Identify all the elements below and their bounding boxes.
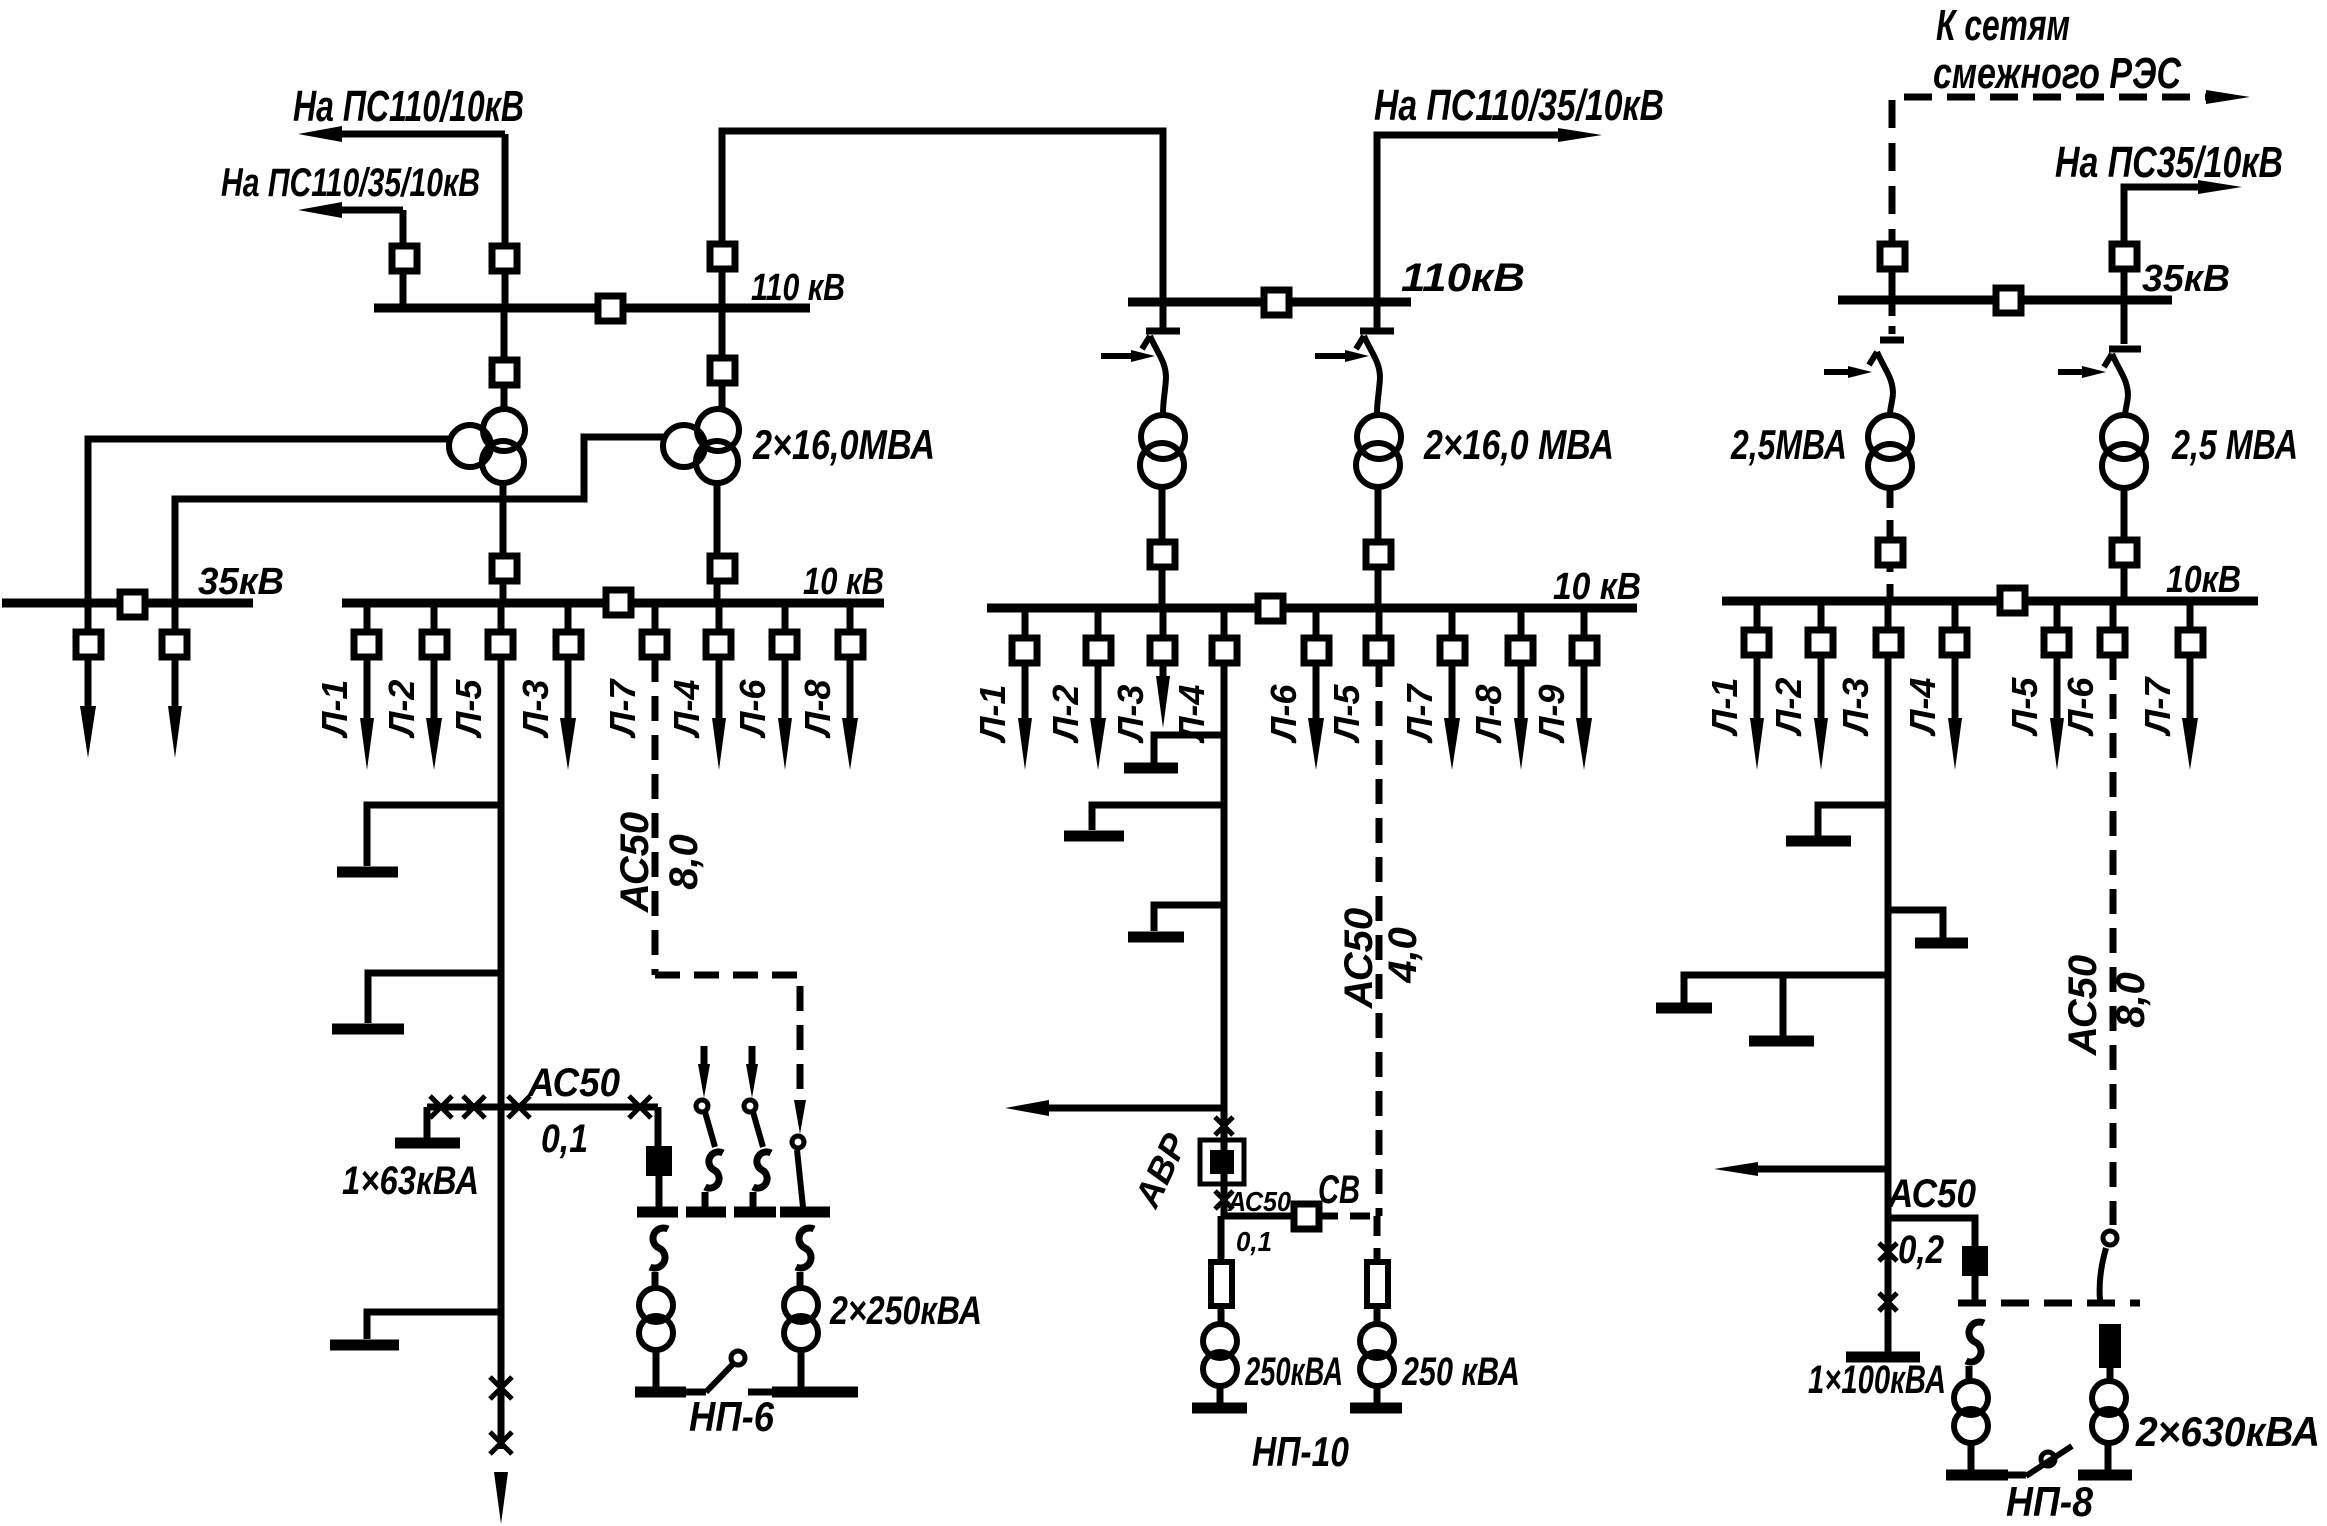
net: dashed line К сетям смежного РЭС: [1892, 97, 2228, 300]
feeder Л-4 disconnector: [1212, 638, 1237, 663]
transformer T4 two-winding 16 MVA: [1357, 415, 1401, 459]
net: outgoing 110kV line 'На ПС110/10кВ' with arrow: [330, 131, 505, 138]
feeder Л-6 dashed line АС50 8,0 sub3: [2110, 655, 2117, 1225]
feeder Л-5 dashed line АС50 4,0: [1376, 662, 1383, 1216]
svg-text:Л-3: Л-3: [1110, 685, 1151, 745]
fuse on TP-1 branch: [650, 1228, 668, 1268]
svg-text:СВ: СВ: [1318, 1168, 1360, 1212]
svg-text:0,2: 0,2: [1898, 1228, 1944, 1272]
feeder Л-6 disconnector: [1304, 638, 1329, 663]
dashed 10kV link bus at TP-5/TP-6: [1958, 1300, 2140, 1307]
circuit breaker (filled) on TP-5 branch: [1962, 1246, 1988, 1276]
disconnector T2 HV: [710, 358, 735, 383]
feeder Л-3 disconnector: [556, 632, 581, 657]
wire: [1218, 1306, 1225, 1324]
svg-text:4,0: 4,0: [1381, 927, 1425, 984]
svg-text:0,1: 0,1: [1236, 1226, 1272, 1257]
svg-text:110 кВ: 110 кВ: [751, 267, 845, 309]
svg-text:Л-5: Л-5: [448, 679, 489, 740]
crossing marks on Л-3: [1879, 1243, 1897, 1261]
feeder Л-6 wire: [1313, 608, 1320, 650]
svg-text:35кВ: 35кВ: [198, 561, 284, 603]
fuse on TP-4: [1367, 1262, 1388, 1306]
feeder Л-1 line with arrow: [1022, 662, 1029, 726]
svg-text:0,1: 0,1: [541, 1117, 588, 1161]
bus 110 кВ substation 2: [1128, 298, 1411, 307]
feeder Л-1 disconnector: [1012, 638, 1037, 663]
transformer T6 two-winding 2.5 MVA: [2102, 415, 2146, 459]
transformer TP-2 2x250kVA: [784, 1288, 818, 1322]
wire: [2105, 1444, 2112, 1470]
svg-text:Л-1: Л-1: [1704, 678, 1745, 738]
feeder Л-9 disconnector: [1572, 638, 1597, 663]
wire: T2 10kV lead to 10kV bus: [714, 482, 721, 603]
bus 35 кВ substation 1: [2, 599, 253, 608]
transformer T1 three-winding 16 MVA: [483, 409, 525, 451]
RP 10kV bus section 2: [686, 1207, 726, 1218]
wire: T1 35kV winding to 35kV bus: [88, 439, 452, 603]
disconnector T4 LV: [1366, 542, 1391, 567]
svg-text:Л-3: Л-3: [1835, 678, 1876, 738]
wire: [702, 1192, 709, 1208]
wire: transformer T2 HV lead: [719, 308, 726, 411]
feeder Л-5 main line: [498, 657, 505, 1449]
end bar of Л-3 1×100кВА: [1846, 1352, 1920, 1363]
spur line АС50 0,1 from Л-5: [427, 1104, 658, 1111]
feeder Л-6 wire: [782, 603, 789, 645]
svg-text:Л-1: Л-1: [314, 680, 355, 740]
wire: [1972, 1276, 1979, 1303]
fuse on TP-2 branch: [796, 1228, 814, 1268]
svg-text:10 кВ: 10 кВ: [1553, 566, 1641, 608]
feeder Л-4 wire: [716, 603, 723, 645]
svg-text:Л-3: Л-3: [515, 680, 556, 740]
svg-text:Л-6: Л-6: [1263, 684, 1304, 745]
wire: [1217, 1387, 1224, 1404]
fuse (filled) on TP-6 branch: [2099, 1324, 2121, 1368]
transformer T6 bay disconnector OD: [2121, 300, 2128, 344]
svg-text:АС50: АС50: [527, 1061, 620, 1105]
35kV feeder 1 disconnector: [76, 632, 101, 657]
wire to RP bus: [656, 1176, 663, 1208]
transformer T4 bay disconnector OD: [1374, 302, 1381, 328]
tie line СВ with sectionalizing switch: [1224, 1213, 1294, 1220]
disconnector on dashed line bay: [1880, 244, 1905, 269]
feeder Л-5 wire: [498, 603, 505, 645]
feeder Л-5 wire: [1376, 608, 1383, 638]
bus-section disconnector 35kV sub3: [1996, 288, 2021, 313]
feeder Л-7 disconnector: [642, 632, 667, 657]
svg-text:АС50: АС50: [2061, 955, 2105, 1056]
disconnector blade incoming 2: [696, 1100, 708, 1112]
transformer T2 three-winding 16 MVA: [697, 409, 739, 451]
0.4kV dead-end bar TP-5: [1946, 1470, 2008, 1481]
crossing mark below АВР: [1215, 1191, 1233, 1209]
feeder Л-8 line with arrow: [1518, 662, 1525, 726]
bus-section disconnector 10kV sub3: [2000, 588, 2025, 613]
feeder Л-4 line with arrow: [1952, 655, 1959, 726]
feeder Л-5 disconnector: [1366, 638, 1391, 663]
bus-section disconnector 35kV: [120, 592, 145, 617]
svg-text:110кВ: 110кВ: [1401, 256, 1525, 300]
feeder Л-1 wire: [1022, 608, 1029, 650]
crossing mark above АВР: [1215, 1117, 1233, 1135]
feeder Л-3 wire: [1160, 608, 1167, 650]
svg-text:Л-5: Л-5: [2004, 677, 2045, 738]
disconnector on line bay 2: [392, 246, 417, 271]
svg-text:АС50: АС50: [1227, 1186, 1291, 1217]
0.4kV dead-end bar TP-2: [772, 1387, 858, 1398]
disconnector blade on Л-6 end: [2103, 1231, 2117, 1245]
transformer TP-5: [1954, 1381, 1988, 1415]
feeder Л-4 line with arrow: [716, 657, 723, 726]
feeder Л-2 disconnector: [1808, 630, 1833, 655]
tap to 1×63кВА substation: [424, 1107, 431, 1138]
tap 1 from Л-5 to consumer substation: [367, 805, 501, 866]
svg-text:Л-7: Л-7: [602, 678, 643, 740]
svg-text:На ПС110/35/10кВ: На ПС110/35/10кВ: [221, 161, 480, 205]
0.4kV dead-end bar TP-1: [635, 1387, 686, 1398]
feeder Л-3 wire: [1885, 601, 1892, 643]
wire: T3 LV lead: [1159, 487, 1166, 608]
disconnector on line bay 1: [492, 246, 517, 271]
wire: [2107, 1368, 2114, 1381]
svg-text:2×16,0МВА: 2×16,0МВА: [752, 421, 935, 468]
transformer TP-3 250kVA: [1203, 1324, 1237, 1358]
wire: T4 LV lead: [1375, 487, 1382, 608]
transformer TP-1 250kVA: [639, 1288, 673, 1322]
svg-text:Л-5: Л-5: [1326, 684, 1367, 745]
bus-section disconnector 110kV sub2: [1264, 290, 1289, 315]
wire: [797, 1272, 804, 1288]
RP 10kV bus section 1: [637, 1207, 678, 1218]
feeder Л-3 main line sub3: [1885, 655, 1892, 1352]
feeder Л-1 wire: [1754, 601, 1761, 643]
svg-text:2×250кВА: 2×250кВА: [829, 1289, 982, 1333]
feeder Л-9 wire: [1581, 608, 1588, 650]
0.4kV dead-end bar TP-6: [2078, 1470, 2132, 1481]
tap 3 from Л-4: [1154, 905, 1224, 931]
feeder Л-3 wire: [565, 603, 572, 645]
feeder Л-5 disconnector: [2044, 630, 2069, 655]
wire from СВ node down: [1218, 1216, 1225, 1262]
dashed wire below CB: [1374, 1216, 1381, 1262]
svg-text:Л-2: Л-2: [1045, 685, 1086, 745]
feeder Л-2 disconnector: [1086, 638, 1111, 663]
35kV feeder 2 wire: [172, 603, 179, 712]
wire: T1 10kV lead to 10kV bus: [500, 482, 507, 603]
svg-text:Л-4: Л-4: [666, 680, 707, 740]
feeder Л-8 line with arrow: [847, 657, 854, 726]
feeder Л-4 main line: [1221, 662, 1228, 1216]
feeder Л-8 disconnector: [1508, 638, 1533, 663]
svg-text:35кВ: 35кВ: [2142, 258, 2230, 300]
bus 10 кВ substation 3: [1722, 597, 2258, 606]
svg-text:1×100кВА: 1×100кВА: [1808, 1358, 1946, 1402]
feeder Л-7 wire: [1449, 608, 1456, 650]
svg-text:2×630кВА: 2×630кВА: [2135, 1408, 2320, 1455]
dashed wire: T5 LV lead: [1887, 488, 1894, 601]
feeder Л-4 disconnector: [706, 632, 731, 657]
RP 10kV bus section 4: [780, 1207, 830, 1218]
wire: 110kV tie line to substation 2: [722, 131, 1163, 308]
transformer TP-6 2x630kVA: [2092, 1381, 2126, 1415]
disconnector T5 LV: [1878, 540, 1903, 565]
svg-text:НП-8: НП-8: [2006, 1478, 2094, 1525]
svg-text:НП-10: НП-10: [1252, 1428, 1349, 1475]
svg-text:2×16,0 МВА: 2×16,0 МВА: [1423, 421, 1614, 468]
svg-text:2,5 МВА: 2,5 МВА: [2171, 421, 2298, 468]
feeder Л-6 disconnector: [2100, 630, 2125, 655]
wire: [798, 1351, 805, 1387]
wire: [1374, 1306, 1381, 1324]
disconnector T1 LV: [492, 556, 517, 581]
feeder Л-7 disconnector: [1440, 638, 1465, 663]
bus-section disconnector 10kV sub1: [606, 590, 631, 615]
svg-text:2,5МВА: 2,5МВА: [1730, 421, 1847, 468]
svg-text:Л-8: Л-8: [797, 680, 838, 740]
svg-text:Л-2: Л-2: [1768, 678, 1809, 738]
outgoing tap with arrow from Л-4: [1048, 1105, 1224, 1112]
wire: T6 LV lead: [2121, 488, 2128, 601]
feeder Л-3 disconnector: [1150, 638, 1175, 663]
svg-text:8,0: 8,0: [662, 834, 706, 890]
feeder Л-3 line with arrow: [565, 657, 572, 726]
svg-text:На ПС110/10кВ: На ПС110/10кВ: [293, 82, 524, 131]
0.4kV dead-end bar TP-3: [1192, 1403, 1247, 1414]
outgoing tap with arrow from Л-3 sub3: [1758, 1166, 1888, 1173]
tap 1 from Л-3 sub3: [1818, 805, 1888, 836]
feeder Л-4 disconnector: [1942, 630, 1967, 655]
tap 3 from Л-5 to consumer substation: [367, 1312, 501, 1339]
feeder Л-8 wire: [847, 603, 854, 645]
35kV feeder 1 arrow: [80, 706, 96, 758]
transformer T5 two-winding 2.5 MVA (planned, dashed): [1868, 415, 1912, 459]
branch from Л-3 to TP-5: [1888, 1218, 1975, 1248]
feeder Л-2 line with arrow: [431, 657, 438, 726]
disconnector T6 LV: [2112, 540, 2137, 565]
fuse on TP-3: [1211, 1262, 1232, 1306]
wire: drop to RP-6 switchgear: [655, 1107, 662, 1146]
RP 10kV bus section 3: [734, 1207, 776, 1218]
svg-text:АС50: АС50: [1337, 908, 1381, 1009]
feeder Л-1 disconnector: [1744, 630, 1769, 655]
feeder Л-7 line with arrow: [2187, 655, 2194, 726]
wire: [653, 1351, 660, 1387]
bus-section disconnector 10kV sub2: [1258, 596, 1283, 621]
wire: [1966, 1366, 1973, 1381]
disconnector T2 LV: [710, 556, 735, 581]
transformer TP-4 250kVA: [1360, 1324, 1394, 1358]
feeder Л-6 wire: [2110, 601, 2117, 631]
svg-text:смежного РЭС: смежного РЭС: [1933, 49, 2182, 98]
0.4kV dead-end bar TP-4: [1350, 1403, 1402, 1414]
feeder Л-4 wire: [1221, 608, 1228, 650]
disconnector on line bay: [2112, 244, 2137, 269]
svg-text:1×63кВА: 1×63кВА: [342, 1159, 479, 1203]
svg-text:Л-2: Л-2: [381, 680, 422, 740]
feeder Л-2 wire: [1095, 608, 1102, 650]
feeder Л-7 disconnector: [2178, 630, 2203, 655]
bus 10 кВ substation 1: [342, 599, 884, 608]
net: outgoing line На ПС35/10кВ with arrow: [2124, 187, 2218, 300]
svg-text:Л-1: Л-1: [972, 685, 1013, 745]
tap 2 from Л-4: [1092, 805, 1224, 830]
feeder Л-2 wire: [431, 603, 438, 645]
feeder Л-1 line with arrow: [364, 657, 371, 726]
feeder Л-5 disconnector: [488, 632, 513, 657]
svg-text:Л-7: Л-7: [2137, 676, 2178, 738]
disconnector on tie line: [710, 244, 735, 269]
feeder Л-3 disconnector: [1876, 630, 1901, 655]
svg-text:НП-6: НП-6: [689, 1393, 775, 1440]
35kV feeder 1 wire: [85, 603, 92, 712]
svg-text:10кВ: 10кВ: [2166, 559, 2241, 601]
transformer T3 two-winding 16 MVA: [1141, 415, 1185, 459]
feeder Л-8 wire: [1518, 608, 1525, 650]
feeder Л-6 line with arrow: [1313, 662, 1320, 726]
35kV feeder 2 disconnector: [162, 632, 187, 657]
feeder Л-8 disconnector: [838, 632, 863, 657]
feeder Л-5 wire: [2054, 601, 2061, 643]
dashed stub end below 35kV bus: [1889, 300, 1896, 334]
transformer T5 bay disconnector OD: [1869, 352, 1877, 365]
feeder Л-6 line with arrow: [782, 657, 789, 726]
incoming 10kV line 3 at RP (arrow): [749, 1046, 756, 1072]
feeder Л-5 end arrow: [494, 1472, 508, 1524]
fuse incoming 3: [753, 1152, 771, 1188]
fuse on TP-5 branch: [1966, 1322, 1984, 1362]
fuse incoming 2: [705, 1152, 723, 1188]
tap 1 from Л-4: [1154, 735, 1224, 763]
transformer T3 bay disconnector OD: [1160, 302, 1167, 328]
feeder Л-7 dashed line АС50 8,0: [652, 657, 659, 975]
disconnector blade incoming 4: [792, 1136, 804, 1148]
crossing marks on Л-5 line: [490, 1377, 512, 1399]
dashed route of Л-7 to RP: [655, 975, 800, 1108]
bus 110 кВ substation 1: [374, 304, 810, 313]
svg-text:8,0: 8,0: [2109, 972, 2153, 1028]
disconnector T1 HV: [492, 360, 517, 385]
feeder Л-9 line with arrow: [1581, 662, 1588, 726]
bus 35 кВ substation 3: [1838, 296, 2172, 305]
svg-text:Л-4: Л-4: [1902, 678, 1943, 738]
tap 3 from Л-3 sub3 (double): [1684, 975, 1888, 1003]
feeder Л-1 wire: [364, 603, 371, 645]
wire: [1968, 1444, 1975, 1470]
normally-open point НП-8 switch: [2008, 1472, 2026, 1479]
net: outgoing line На ПС110/35/10кВ with arrow: [1377, 135, 1568, 302]
wire: 110kV line bay 2 riser: [400, 210, 407, 308]
disconnector T3 LV: [1150, 542, 1175, 567]
svg-text:Л-7: Л-7: [1399, 683, 1440, 745]
arrow end of Л-7 line: [794, 1100, 806, 1134]
svg-text:250кВА: 250кВА: [1244, 1350, 1343, 1394]
svg-text:Л-8: Л-8: [1468, 685, 1509, 745]
feeder Л-5 line with arrow: [2054, 655, 2061, 726]
feeder Л-1 disconnector: [354, 632, 379, 657]
normally-open point НП-6 switch: [686, 1389, 706, 1396]
svg-text:К сетям: К сетям: [1936, 1, 2070, 50]
feeder Л-7 wire: [2187, 601, 2194, 643]
tap 2 from Л-3 sub3: [1888, 910, 1943, 938]
feeder Л-2 wire: [1818, 601, 1825, 643]
wire: [750, 1192, 757, 1208]
feeder Л-3 line with arrow: [1160, 662, 1167, 684]
bus 10 кВ substation 2: [987, 604, 1637, 613]
feeder Л-2 line with arrow: [1818, 655, 1825, 726]
wire: [652, 1272, 659, 1288]
svg-text:Л-6: Л-6: [2060, 677, 2101, 738]
feeder Л-2 disconnector: [422, 632, 447, 657]
tap 2 from Л-5 to consumer substation: [368, 973, 501, 1023]
circuit breaker (filled) on RP feed: [646, 1146, 672, 1176]
feeder Л-7 line with arrow: [1449, 662, 1456, 726]
feeder Л-1 line with arrow: [1754, 655, 1761, 726]
svg-text:АС50: АС50: [613, 812, 657, 913]
svg-text:250 кВА: 250 кВА: [1401, 1350, 1520, 1394]
net: outgoing 110kV line 'На ПС110/35/10кВ' with arrow: [330, 207, 403, 214]
wire: transformer T1 HV lead: [501, 308, 508, 411]
incoming 10kV line 2 at RP (arrow): [701, 1046, 708, 1072]
svg-text:На ПС110/35/10кВ: На ПС110/35/10кВ: [1374, 81, 1664, 130]
feeder Л-7 wire: [652, 603, 659, 633]
wire: T2 35kV winding to 35kV bus: [175, 437, 666, 603]
wire: [1374, 1387, 1381, 1404]
АВР automatic transfer device: [1200, 1140, 1244, 1184]
wire: 110kV line bay 1 riser: [502, 134, 509, 308]
bus-section disconnector 110kV: [598, 296, 623, 321]
svg-text:На ПС35/10кВ: На ПС35/10кВ: [2055, 138, 2283, 187]
35kV feeder 2 arrow: [168, 706, 182, 758]
feeder Л-2 line with arrow: [1095, 662, 1102, 726]
svg-text:10 кВ: 10 кВ: [803, 561, 884, 603]
svg-text:АС50: АС50: [1887, 1172, 1976, 1216]
disconnector blade incoming 3: [744, 1100, 756, 1112]
feeder Л-4 wire: [1952, 601, 1959, 643]
feeder Л-6 disconnector: [772, 632, 797, 657]
svg-text:Л-6: Л-6: [732, 679, 773, 740]
svg-text:Л-9: Л-9: [1531, 685, 1572, 745]
